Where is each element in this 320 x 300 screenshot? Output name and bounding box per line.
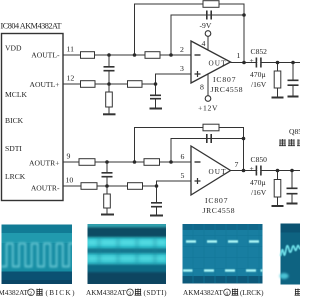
wire load cap stem out2 (291, 171, 293, 203)
resistor R pin9 series (144, 159, 160, 166)
resistor load out1 (274, 71, 281, 88)
resistor R pin10 input (81, 183, 97, 190)
wire feedback loop 2 (resistor branch) (135, 128, 244, 171)
svg-text:OUT: OUT (209, 168, 227, 176)
wire pin11 AOUTL- (63, 54, 191, 56)
wire cap stem between pin9/pin10 nodes (106, 162, 108, 186)
caption 3 AKM4382AT pin4 LRCK (183, 289, 264, 298)
svg-text:/16V: /16V (251, 80, 267, 89)
ground below out1 load resistor (272, 97, 284, 99)
resistor feedback 1 (203, 1, 219, 8)
svg-text:LRCK: LRCK (5, 172, 26, 181)
svg-text:C852: C852 (251, 47, 268, 56)
node A1 (107, 53, 111, 57)
caption 4 partial (cut at edge) (295, 289, 302, 296)
node D4 (155, 184, 159, 188)
svg-text:AKM4382AT: AKM4382AT (183, 289, 224, 297)
wire feedback loop 1 (resistor branch) (135, 4, 245, 63)
svg-text:4: 4 (202, 39, 206, 48)
svg-text:3: 3 (128, 291, 131, 297)
wire cap stem between pin11/pin12 nodes (108, 55, 110, 84)
svg-text:IC807: IC807 (205, 196, 228, 205)
svg-text:(SDTI): (SDTI) (144, 289, 168, 297)
svg-text:+12V: +12V (198, 104, 218, 113)
node feedback1 cap junction (242, 13, 246, 17)
capacitor C852 plates (256, 58, 261, 68)
ground below D2 cap (150, 108, 163, 110)
op-amp U1 IC807 top (191, 41, 231, 83)
wire feedback loop 2 (cap branch) (171, 139, 244, 163)
node A4 (105, 184, 109, 188)
node B1 (133, 53, 137, 57)
capacitor feedback 2 (207, 134, 211, 143)
node out2 load R (276, 169, 280, 173)
op-amp U2 IC807 bottom (191, 146, 231, 195)
capacitor between pin11/pin12 nodes (104, 67, 115, 71)
wire cap-to-ground below D2 (155, 84, 157, 108)
wire pin12 AOUTL+ (63, 74, 191, 84)
C850 plate gap erase (257, 169, 260, 172)
capacitor C850 plates (256, 166, 261, 176)
node out2 feedback junction (242, 169, 246, 173)
svg-text:AKM4382AT: AKM4382AT (0, 289, 29, 297)
svg-text:6: 6 (181, 152, 185, 161)
svg-text:+: + (250, 56, 254, 65)
node C1 (169, 53, 173, 57)
wire cap-to-ground below D4 (156, 186, 158, 215)
wire opamp1 pin8 stem (207, 74, 209, 96)
node out1 feedback junction (242, 61, 246, 65)
wire opamp1 pin4 stem (207, 36, 209, 50)
svg-text:12: 12 (67, 74, 75, 83)
capacitor between pin9/pin10 nodes (102, 173, 113, 177)
wire load cap stem out1 (292, 63, 294, 96)
oscilloscope 1 BICK waveform (2, 225, 82, 285)
svg-text:C850: C850 (251, 155, 268, 164)
terminal -9V pin4 (205, 31, 211, 37)
svg-text:VDD: VDD (5, 44, 22, 53)
svg-text:5: 5 (181, 171, 185, 180)
node feedback2 cap junction (242, 137, 246, 141)
svg-text:AOUTL+: AOUTL+ (29, 80, 59, 89)
svg-text:1: 1 (237, 51, 241, 60)
oscilloscope 4 audio waveform (279, 224, 300, 285)
capacitor feedback 1 (207, 11, 211, 20)
node out1 load R (276, 61, 280, 65)
resistor R pin11 input (81, 52, 95, 59)
node A3 (105, 160, 109, 164)
svg-text:11: 11 (67, 45, 75, 54)
ground below out1 load cap (288, 96, 299, 98)
svg-text:BICK: BICK (5, 116, 24, 125)
caption 2 AKM4382AT pin3 SDTI (86, 289, 167, 298)
resistor shunt below A2 (106, 92, 113, 107)
node out1 load C (291, 61, 295, 65)
ground below out2 load resistor (272, 205, 284, 207)
wire output 2 (231, 170, 301, 172)
svg-text:-9V: -9V (200, 21, 212, 30)
node A2 (107, 82, 111, 86)
svg-text:(BICK): (BICK) (46, 289, 76, 297)
C852 plate gap erase (257, 61, 260, 64)
ground below D4 cap (150, 215, 163, 217)
svg-text:AKM4382AT: AKM4382AT (86, 289, 127, 297)
svg-text:7: 7 (235, 160, 239, 169)
node out2 load C (290, 169, 294, 173)
svg-text:/16V: /16V (251, 188, 267, 197)
oscilloscope 2 SDTI waveform (86, 223, 168, 285)
wire load resistor stem out2 (277, 171, 279, 206)
IC804 chip body (2, 34, 64, 201)
svg-text:3: 3 (180, 64, 184, 73)
resistor R pin11 series (145, 52, 160, 59)
wire load resistor stem out1 (277, 63, 279, 97)
capacitor below D2 (150, 95, 161, 98)
ground below out2 load cap (287, 203, 298, 205)
capacitor load out1 (288, 80, 299, 85)
wire feedback loop 1 (cap branch) (171, 15, 244, 55)
svg-text:2: 2 (29, 291, 32, 297)
resistor R pin12 series (128, 81, 143, 88)
oscilloscope 3 LRCK waveform (183, 224, 263, 284)
svg-text:8: 8 (200, 83, 204, 92)
svg-text:IC807: IC807 (213, 75, 236, 84)
svg-text:OUT: OUT (209, 60, 227, 68)
svg-text:AOUTR+: AOUTR+ (29, 159, 59, 168)
svg-text:Q85: Q85 (289, 127, 300, 136)
svg-text:+: + (250, 164, 254, 173)
resistor feedback 2 (203, 124, 219, 131)
svg-text:9: 9 (67, 152, 71, 161)
svg-text:(LRCK): (LRCK) (240, 289, 264, 297)
wire pin10 AOUTR- (63, 181, 191, 186)
svg-text:470µ: 470µ (250, 70, 266, 79)
svg-text:AOUTL-: AOUTL- (31, 51, 60, 60)
resistor R pin12 input (81, 81, 96, 88)
svg-text:470µ: 470µ (250, 178, 266, 187)
ground below A4 resistor (101, 214, 114, 216)
svg-text:10: 10 (66, 176, 74, 185)
resistor R pin10 series (128, 183, 143, 190)
svg-text:SDTI: SDTI (5, 144, 22, 153)
svg-text:IC804 AKM4382AT: IC804 AKM4382AT (1, 22, 62, 31)
wire output 1 (231, 62, 301, 64)
wire resistor-to-ground below A4 (106, 186, 108, 214)
svg-text:2: 2 (180, 45, 184, 54)
capacitor below D4 (151, 203, 162, 207)
capacitor load out2 (287, 188, 298, 193)
node B3 (133, 160, 137, 164)
resistor load out2 (274, 180, 281, 198)
svg-text:JRC4558: JRC4558 (203, 206, 235, 215)
terminal +12V pin8 (205, 96, 211, 102)
node D2 (154, 82, 158, 86)
node C3 (169, 160, 173, 164)
svg-text:AOUTR-: AOUTR- (31, 184, 60, 193)
wire resistor-to-ground below A2 (108, 84, 110, 114)
svg-text:JRC4558: JRC4558 (211, 85, 243, 94)
ground below A2 resistor (103, 113, 116, 115)
resistor shunt below A4 (104, 194, 111, 208)
svg-text:MCLK: MCLK (5, 90, 27, 99)
resistor R pin9 input (79, 159, 95, 166)
caption 1 AKM4382AT pin2 BICK (0, 289, 75, 298)
label jingzao (CJK, drawn) (279, 139, 304, 146)
svg-text:4: 4 (225, 291, 228, 297)
wire pin9 AOUTR+ (63, 161, 191, 163)
